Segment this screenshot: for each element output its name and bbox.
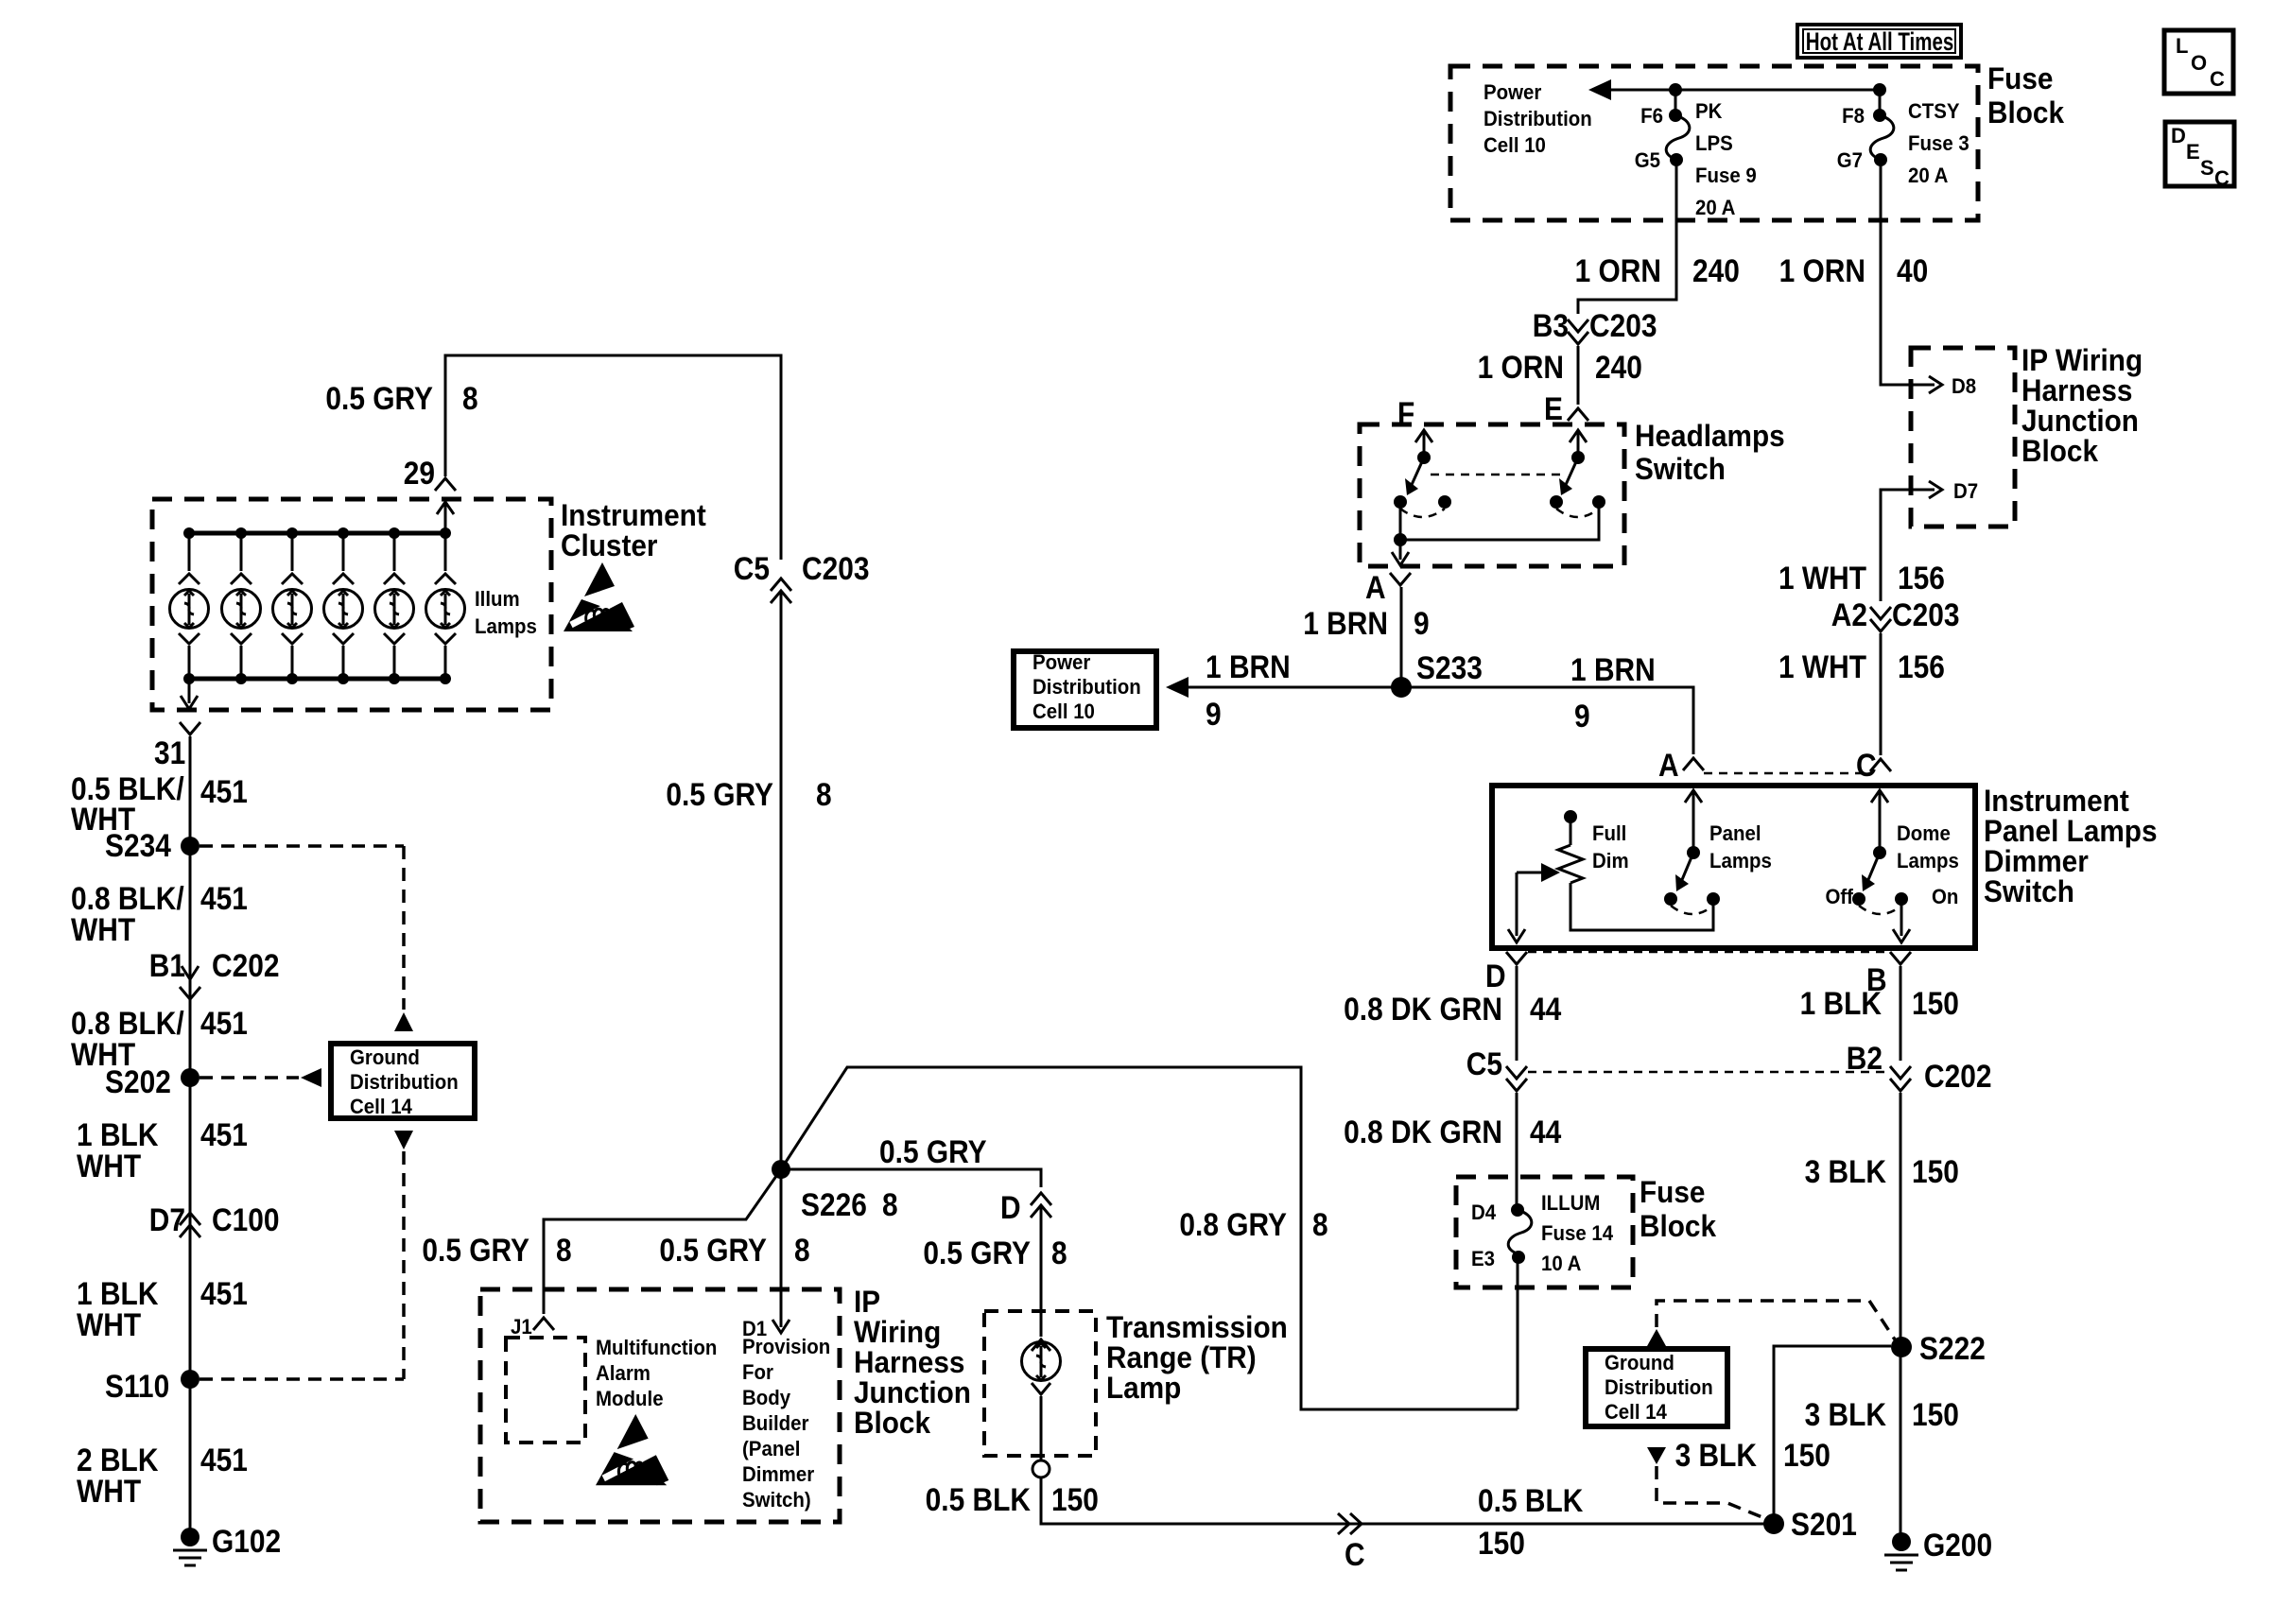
gray riser wire C203 to S226 (780, 593, 783, 1169)
wire S233 horizontal run (1188, 687, 1693, 754)
svg-text:C: C (1345, 1536, 1365, 1572)
dimmer dome on contact dot (1895, 892, 1908, 906)
svg-text:8: 8 (556, 1232, 572, 1268)
arrow into ground box top (394, 1012, 413, 1031)
svg-text:1 BRN: 1 BRN (1570, 651, 1656, 687)
headlamp right second contact dot (1592, 495, 1605, 509)
svg-text:D4: D4 (1471, 1201, 1496, 1224)
dimmer dome output to B (1893, 899, 1910, 942)
svg-text:451: 451 (200, 1116, 248, 1152)
svg-text:G200: G200 (1923, 1527, 1992, 1563)
svg-text:8: 8 (462, 380, 478, 416)
dimmer panel dashed arc (1671, 906, 1713, 914)
svg-text:1 BRN: 1 BRN (1303, 605, 1388, 641)
wire S226 to D (TR lamp feed) (781, 1169, 1041, 1187)
connector D (double chevron) (1031, 1193, 1051, 1218)
svg-text:0.5 GRY: 0.5 GRY (659, 1232, 767, 1268)
headlamp switch F pivot dot (1417, 451, 1431, 464)
svg-text:E3: E3 (1471, 1247, 1495, 1270)
svg-text:S226: S226 (801, 1186, 867, 1222)
connector C5/C202 (1506, 1066, 1527, 1091)
dimmer panel lamps pivot dot (1687, 846, 1700, 859)
headlamp right contact dot (1550, 495, 1563, 509)
Headlamps Switch dashed box (1360, 424, 1624, 566)
svg-text:D: D (2171, 124, 2186, 147)
wire S226 to J1 (544, 1169, 781, 1314)
svg-text:0.5 GRY: 0.5 GRY (666, 776, 773, 812)
connector E (1568, 408, 1588, 421)
cluster top bus wire (189, 531, 445, 536)
svg-text:S234: S234 (105, 827, 171, 863)
svg-text:A2: A2 (1831, 596, 1867, 632)
svg-text:1 ORN: 1 ORN (1478, 349, 1564, 385)
label DESC (2171, 124, 2230, 190)
svg-text:O: O (2191, 51, 2207, 75)
junction S226 (772, 1160, 790, 1179)
svg-text:451: 451 (200, 1005, 248, 1041)
wire G7 to D8 (1881, 160, 1935, 385)
dimmer panel blade arrowhead (1675, 874, 1689, 891)
svg-text:S202: S202 (105, 1063, 171, 1099)
ground G102 (173, 1528, 207, 1565)
connector J1 (533, 1318, 554, 1330)
svg-text:F6: F6 (1640, 104, 1663, 128)
svg-text:D7: D7 (149, 1201, 185, 1237)
Instrument Panel Lamps Dimmer Switch solid box (1492, 786, 1975, 948)
cluster exit wire pin 31 arrow (181, 679, 198, 709)
svg-text:C202: C202 (212, 947, 280, 983)
wire B3 to E (1577, 346, 1580, 405)
wire B2 to S222 to G200 (1900, 1093, 1902, 1542)
ESD symbol (cluster) (564, 562, 634, 631)
svg-text:G7: G7 (1837, 148, 1863, 172)
svg-text:150: 150 (1912, 1396, 1959, 1432)
dashed connector line C202 row (1528, 1071, 1889, 1074)
svg-text:3 BLK: 3 BLK (1805, 1396, 1886, 1432)
connector D (dimmer) (1506, 952, 1527, 964)
fuse PK LPS Fuse 9 (1666, 90, 1690, 166)
connector A2/C203 (1870, 607, 1891, 631)
svg-text:40: 40 (1897, 252, 1928, 288)
dashed web below right ground box (1657, 1466, 1764, 1518)
wire B to B2 connector (1900, 966, 1902, 1061)
TR lamp top connector (1032, 1339, 1050, 1351)
svg-text:150: 150 (1051, 1481, 1099, 1517)
svg-text:8: 8 (882, 1186, 898, 1222)
ground G200 (1884, 1532, 1918, 1570)
svg-text:29: 29 (404, 455, 435, 491)
dashed ground web arrow up (right box) (1647, 1329, 1666, 1346)
left ground chain wire (189, 736, 192, 1537)
svg-text:8: 8 (1312, 1206, 1328, 1242)
ESD symbol (alarm module) (596, 1414, 668, 1485)
svg-text:C5: C5 (1466, 1045, 1502, 1081)
svg-text:0.5 GRY: 0.5 GRY (422, 1232, 529, 1268)
svg-text:C: C (2214, 166, 2230, 190)
Multifunction Alarm Module inner dashed box (506, 1338, 585, 1443)
TR lamp bulb (1022, 1342, 1061, 1381)
headlamp output bus (1400, 502, 1599, 540)
svg-text:B1: B1 (149, 947, 185, 983)
svg-text:31: 31 (154, 734, 185, 770)
svg-text:150: 150 (1912, 985, 1959, 1021)
svg-text:0.8 DK GRN: 0.8 DK GRN (1344, 991, 1502, 1027)
svg-text:0.5 GRY: 0.5 GRY (923, 1235, 1031, 1270)
svg-text:S110: S110 (105, 1368, 169, 1404)
dashed connector line D-B (1528, 951, 1889, 954)
TR lamp bottom connector (1032, 1383, 1050, 1460)
headlamp exit arrow A (1392, 540, 1409, 565)
wire G5 to B3 (1578, 160, 1676, 314)
junction S234 (181, 837, 200, 855)
svg-text:On: On (1932, 885, 1958, 908)
dashed connector line A-C (1704, 772, 1870, 775)
svg-text:0.5 BLK: 0.5 BLK (926, 1481, 1031, 1517)
svg-text:G102: G102 (212, 1523, 281, 1559)
connector D7/C100 (180, 1213, 200, 1237)
pin 29 arrow into cluster (437, 502, 454, 533)
arrow D8 (1929, 376, 1942, 393)
dimmer wiper arrow (1517, 863, 1560, 882)
svg-text:1 ORN: 1 ORN (1779, 252, 1865, 288)
svg-text:S: S (2200, 156, 2214, 180)
dimmer dome lamps feed arrow (1871, 790, 1888, 853)
svg-text:0.5 GRY: 0.5 GRY (325, 380, 433, 416)
svg-text:S233: S233 (1416, 649, 1483, 685)
dimmer panel lamps blade (1681, 853, 1693, 882)
svg-text:Off: Off (1825, 885, 1853, 908)
TR lamp case ground bubble (1032, 1460, 1050, 1477)
node F8 top (1873, 83, 1886, 96)
headlamp switch right blade (1565, 458, 1578, 487)
svg-text:150: 150 (1912, 1153, 1959, 1189)
svg-text:1 BRN: 1 BRN (1206, 648, 1291, 684)
junction S233 (1391, 677, 1412, 698)
dimmer dome blade arrowhead (1862, 874, 1875, 891)
headlamp blade link dashed (1431, 474, 1566, 476)
arrow into power distribution cell 10 (1166, 677, 1189, 698)
splice chevron C on blk wire (1338, 1513, 1362, 1534)
svg-text:156: 156 (1898, 560, 1945, 596)
illum lamp 4 (324, 533, 363, 679)
svg-text:156: 156 (1898, 648, 1945, 684)
wire S201 to S222 (1774, 1346, 1891, 1524)
illum lamp 5 (375, 533, 414, 679)
wire TR lamp to S201 (1041, 1477, 1774, 1524)
svg-text:9: 9 (1206, 696, 1222, 732)
svg-text:D: D (1000, 1189, 1021, 1225)
dimmer rheostat bottom link to panel contact (1570, 883, 1713, 930)
wire D7 to A2 connector (1881, 490, 1935, 601)
dashed ground web arrow down (right box) (1647, 1447, 1666, 1464)
wire pin29 riser and top run to C203 (445, 355, 781, 560)
headlamp output junction dot (1394, 533, 1407, 546)
svg-text:44: 44 (1530, 1114, 1561, 1149)
junction S110 (181, 1370, 200, 1389)
junction S201 (1763, 1513, 1784, 1534)
svg-text:L: L (2176, 34, 2188, 58)
svg-text:A: A (1658, 747, 1679, 783)
svg-text:G5: G5 (1635, 148, 1660, 172)
dimmer dome blade (1867, 853, 1880, 882)
Ground Distribution Cell 14 box (right) (1586, 1349, 1727, 1426)
svg-text:S201: S201 (1791, 1506, 1857, 1542)
svg-text:C: C (1856, 747, 1877, 783)
fuse CTSY Fuse 3 (1870, 90, 1894, 166)
svg-text:451: 451 (200, 773, 248, 809)
svg-text:240: 240 (1692, 252, 1740, 288)
arrow into power distribution (fuse block) (1588, 79, 1611, 100)
connector A (dimmer) (1683, 758, 1704, 770)
pin 29 connector (435, 478, 456, 491)
node F6 top (1669, 83, 1682, 96)
dimmer panel left contact dot (1664, 892, 1677, 906)
svg-text:C203: C203 (802, 550, 870, 586)
svg-text:F8: F8 (1842, 104, 1865, 128)
Hot At All Times box (1797, 25, 1961, 58)
headlamp left blade arrowhead (1405, 478, 1418, 495)
svg-text:240: 240 (1595, 349, 1642, 385)
dashed ground ref S202 to box (200, 1076, 299, 1080)
illum lamp 6 (426, 533, 465, 679)
illum lamp 1 (170, 533, 209, 679)
arrow D7 (1929, 481, 1942, 498)
dashed ground ref S110 (200, 1377, 404, 1381)
dimmer rheostat (1558, 817, 1583, 883)
label LOC (2176, 34, 2225, 91)
svg-text:B2: B2 (1847, 1040, 1883, 1076)
wire S226 diagonal to gry trunk (781, 1067, 1518, 1409)
svg-text:9: 9 (1574, 698, 1590, 734)
wire fuse E3 down to gry trunk (1517, 1257, 1519, 1409)
svg-text:C5: C5 (734, 550, 770, 586)
connector B3/C203 (1568, 320, 1588, 344)
svg-text:451: 451 (200, 1275, 248, 1311)
wire A to S233 (1400, 587, 1403, 687)
headlamp right blade arrowhead (1559, 478, 1572, 495)
illum lamp 2 (222, 533, 261, 679)
headlamp left contact dot (1394, 495, 1407, 509)
junction S222 (1891, 1337, 1912, 1357)
arrow out of ground box bottom (394, 1131, 413, 1149)
connector B2/C202 (1890, 1066, 1911, 1091)
pin 31 connector (180, 722, 200, 734)
svg-text:3 BLK: 3 BLK (1675, 1437, 1757, 1473)
wire C5 to fuse D4 (1516, 1093, 1518, 1210)
connector B1/C202 (180, 966, 200, 999)
Fuse Block (top) dashed box (1450, 66, 1978, 220)
connector A (headlamp) (1390, 573, 1411, 585)
cluster bottom bus wire (189, 677, 445, 682)
svg-text:J1: J1 (511, 1315, 532, 1339)
headlamp switch E contact arrow (1570, 430, 1587, 458)
Power Distribution Cell 10 box (1014, 651, 1156, 728)
dashed ground riser upper (402, 846, 406, 1010)
svg-text:150: 150 (1783, 1437, 1831, 1473)
headlamp switch E pivot dot (1571, 451, 1585, 464)
Ground Distribution Cell 14 box (left) (331, 1044, 475, 1118)
svg-text:C203: C203 (1892, 596, 1960, 632)
dimmer dome pivot dot (1873, 846, 1886, 859)
Transmission Range Lamp dashed box (984, 1311, 1096, 1456)
headlamp left dashed arc (1400, 509, 1445, 517)
svg-text:451: 451 (200, 880, 248, 916)
svg-text:E: E (2186, 140, 2200, 164)
dimmer wiper output to D (1508, 872, 1525, 942)
svg-text:1 ORN: 1 ORN (1575, 252, 1661, 288)
headlamp right dashed arc (1556, 509, 1599, 517)
connector C (dimmer) (1870, 759, 1891, 771)
svg-text:3 BLK: 3 BLK (1805, 1153, 1886, 1189)
svg-text:D8: D8 (1952, 374, 1976, 398)
svg-text:D: D (1485, 958, 1506, 993)
dimmer rheostat top dot (1564, 810, 1577, 823)
svg-text:8: 8 (794, 1232, 810, 1268)
headlamp switch left blade (1411, 458, 1424, 487)
connector B (dimmer) (1890, 952, 1911, 964)
dimmer panel right contact dot (1707, 892, 1720, 906)
connector C5/C203 (gray riser) (771, 579, 791, 603)
fuse ILLUM Fuse 14 (1508, 1203, 1532, 1264)
svg-text:1 WHT: 1 WHT (1778, 648, 1866, 684)
Instrument Cluster dashed box (152, 499, 551, 710)
headlamp left second contact dot (1438, 495, 1451, 509)
svg-text:B3: B3 (1533, 307, 1569, 343)
svg-text:A: A (1365, 569, 1386, 605)
svg-text:0.8 DK GRN: 0.8 DK GRN (1344, 1114, 1502, 1149)
svg-text:0.5 BLK: 0.5 BLK (1478, 1482, 1583, 1518)
wire D to TR lamp (1040, 1207, 1043, 1337)
svg-text:1 BLK: 1 BLK (1800, 985, 1882, 1021)
svg-text:C: C (2210, 67, 2225, 91)
svg-text:451: 451 (200, 1442, 248, 1477)
wire S226 to D1 arrow (772, 1169, 789, 1333)
svg-text:D7: D7 (1953, 479, 1978, 503)
cluster bus junction dots (183, 527, 451, 684)
Fuse Block (ILLUM) dashed box (1456, 1177, 1633, 1287)
dimmer dome dashed arc (1859, 906, 1901, 914)
svg-text:0.5 GRY: 0.5 GRY (879, 1133, 987, 1169)
LOC box (2164, 30, 2233, 94)
headlamp switch F contact arrow (1415, 430, 1432, 458)
dimmer dome off contact dot (1852, 892, 1865, 906)
svg-text:150: 150 (1478, 1525, 1525, 1561)
svg-text:0.8 GRY: 0.8 GRY (1179, 1206, 1287, 1242)
svg-text:E: E (1544, 390, 1563, 426)
dashed web above right ground box (1657, 1301, 1895, 1339)
dimmer panel lamps feed arrow (1685, 790, 1702, 853)
fuse block top feed wire (1607, 89, 1880, 92)
svg-text:8: 8 (816, 776, 832, 812)
IP Wiring Harness Junction Block (bottom) dashed box (480, 1289, 840, 1522)
dashed ground ref S234 to riser (200, 844, 404, 848)
illum lamp 3 (273, 533, 312, 679)
svg-text:8: 8 (1051, 1235, 1067, 1270)
wire D to C5 connector (1516, 966, 1518, 1061)
svg-text:C100: C100 (212, 1201, 280, 1237)
IP Wiring Harness Junction Block (right) dashed box (1911, 348, 2015, 527)
svg-text:Hot At All Times: Hot At All Times (1806, 27, 1954, 56)
svg-text:1 WHT: 1 WHT (1778, 560, 1866, 596)
svg-text:44: 44 (1530, 991, 1561, 1027)
DESC box (2165, 122, 2234, 186)
junction S202 (181, 1068, 200, 1087)
svg-text:C203: C203 (1589, 307, 1657, 343)
wire A2 to C pin (1880, 633, 1883, 755)
arrow toward S202 (301, 1068, 321, 1087)
svg-text:9: 9 (1414, 605, 1430, 641)
svg-text:F: F (1397, 395, 1414, 431)
dashed ground riser lower (402, 1151, 406, 1379)
svg-text:C202: C202 (1924, 1058, 1992, 1094)
svg-text:S222: S222 (1919, 1330, 1986, 1366)
